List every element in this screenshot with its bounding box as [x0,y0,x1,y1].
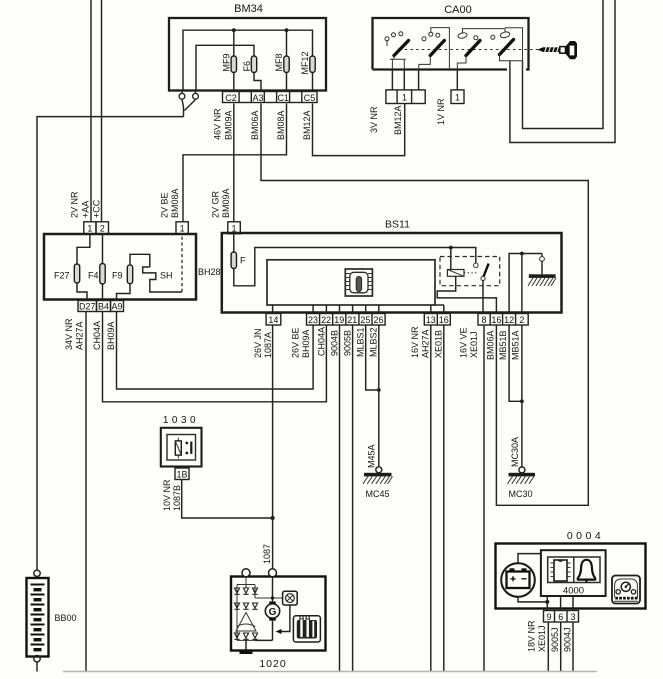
svg-text:13: 13 [426,315,436,325]
svg-text:3V NR: 3V NR [369,106,379,133]
svg-text:21: 21 [347,315,357,325]
wire 1087 to alternator [272,518,274,569]
diode bridge [237,577,283,641]
fuse box (F27 F4 F9 SH) [44,234,196,300]
wire AH27A pin13 down [430,325,432,672]
terminal circles bottom left [182,91,196,94]
wire F9 top to SH [130,254,150,267]
svg-text:MB51A: MB51A [511,330,521,360]
wire sw1 bottom [387,41,406,70]
connector 14 [266,314,281,326]
connector D27 [78,301,97,312]
ground tab [245,640,247,649]
instrument panel 0004 [496,544,646,609]
svg-text:1087A: 1087A [263,332,273,358]
connector 2 (+CC) [96,222,109,234]
svg-text:2V BE: 2V BE [160,192,170,218]
stubs from module to pins [273,305,444,314]
bottom cut line [63,671,597,673]
svg-text:AH27A: AH27A [75,321,85,350]
svg-text:14: 14 [268,315,278,325]
svg-text:MLBS1: MLBS1 [356,327,366,357]
svg-text:C2: C2 [225,93,237,103]
fuse F (BH28) [233,234,235,252]
wire net BM06A (A3 around to BS11 pin16) [261,104,588,506]
svg-text:0004: 0004 [567,530,604,542]
svg-text:G: G [269,607,277,618]
wire MLBS2 to ground [378,325,380,467]
svg-text:BM34: BM34 [234,3,263,15]
connector B4 [97,301,111,312]
svg-text:BM08A: BM08A [276,110,286,140]
svg-text:+CC: +CC [92,199,102,218]
svg-text:MF12: MF12 [300,51,310,74]
svg-text:MF8: MF8 [274,54,284,72]
wire battery feed from BM34 terminals [37,100,196,571]
wires 4000 to pins [547,596,573,611]
wire MF8 stub [286,30,288,91]
connector strip BM34 [223,92,318,103]
wire MLBS1 join [366,325,379,390]
charge lamp terminal [283,591,298,605]
IC symbol [554,560,567,581]
wire internal bus 2 [196,45,254,90]
diagnostic socket 1030 [161,428,202,467]
wire sw2 bottom [419,28,450,70]
svg-text:1B: 1B [176,469,187,479]
wire AH27A down [85,312,87,672]
battery warning light [501,563,535,597]
svg-text:MC30: MC30 [508,489,532,499]
wire internal bus 1 [183,30,313,90]
wire net BM09A (C2 to BS11) [233,104,235,222]
svg-text:12: 12 [504,315,514,325]
svg-text:16: 16 [439,315,449,325]
wire CH04A down/right [103,312,327,402]
svg-text:2: 2 [100,224,105,234]
ground MC45 [376,467,382,473]
gauge symbol [612,576,640,604]
connector 1 (BM09A to BS11) [228,222,241,234]
connector 1V NR [451,90,464,104]
svg-text:SH: SH [160,271,173,281]
svg-text:46V NR: 46V NR [213,108,223,140]
shunt SH [143,267,182,292]
switch blade 1 [394,41,409,56]
svg-text:MB51B: MB51B [498,330,508,360]
svg-text:9005J: 9005J [550,627,560,652]
svg-text:9004J: 9004J [563,627,573,652]
svg-text:D27: D27 [79,302,96,312]
node junction MF9 [232,28,236,32]
svg-text:1: 1 [455,93,460,103]
svg-text:19: 19 [334,315,344,325]
connector strip 23-26 [307,314,386,326]
fuse MF8 [284,56,289,73]
svg-text:MC45: MC45 [365,489,389,499]
svg-text:MC30A: MC30A [510,437,520,467]
rotor G [272,577,274,602]
wire +CC feed [101,0,103,222]
wire MB51B join [509,325,522,401]
wire conn2 through F4 [102,234,104,301]
fuse F9 [127,265,132,284]
switch blade 3 [466,41,480,56]
svg-text:9005B: 9005B [343,330,353,356]
svg-text:F27: F27 [54,271,70,281]
svg-text:2V NR: 2V NR [70,191,80,218]
svg-text:16: 16 [491,315,501,325]
svg-text:26V JN: 26V JN [253,328,263,358]
svg-text:CA00: CA00 [444,4,472,16]
fuse F6 [251,56,256,73]
wire SH to conn BM08A (dashed) [181,234,183,292]
svg-text:XE01J: XE01J [469,331,479,358]
svg-text:BM06A: BM06A [486,330,496,360]
svg-text:1087B: 1087B [172,485,182,511]
wire F to relay coil [234,248,476,286]
wire F6 bottom jog [254,73,261,92]
svg-text:BM09A: BM09A [221,188,231,218]
svg-text:1: 1 [402,93,407,103]
svg-text:6: 6 [558,612,563,622]
connector 9/6/3 [544,611,579,623]
wire F27 to D27 [77,283,87,301]
svg-text:A3: A3 [252,93,263,103]
fuse/relay unit BS11 [222,233,562,313]
wires CA00 to connectors [392,70,457,90]
svg-text:8: 8 [481,315,486,325]
svg-text:+AA: +AA [81,201,91,218]
svg-text:MF9: MF9 [222,54,232,72]
svg-text:9004B: 9004B [330,330,340,356]
node junction MF8 [285,28,289,32]
control unit 4000 [541,550,606,596]
connector 13/16 [424,314,450,326]
svg-text:BM12A: BM12A [393,105,403,135]
svg-text:F: F [240,256,246,266]
wire 1087A pin14 down [272,325,274,518]
wire 9005B down [352,325,354,672]
svg-text:BM08A: BM08A [170,188,180,218]
dashed actuation line [399,49,541,51]
wire F9 to A9 [117,284,131,301]
svg-text:18V NR: 18V NR [527,620,537,652]
fuse F27 [74,264,79,283]
inner module box [267,260,435,305]
wire 1087B [182,480,273,519]
node coil feed [449,246,453,250]
svg-text:F9: F9 [112,271,123,281]
fuse F4 [100,264,105,285]
fuse box BM34 [169,18,326,91]
svg-text:F4: F4 [88,271,99,281]
svg-text:2V GR: 2V GR [211,190,221,218]
wire CA00 inner loop [523,0,604,129]
svg-text:22: 22 [321,315,331,325]
svg-text:1030: 1030 [163,415,199,426]
svg-text:1V NR: 1V NR [436,98,446,125]
switch blade 4 [500,40,514,55]
relay switch blade [481,276,485,280]
wire conn1 to F27 [77,234,90,264]
svg-text:16V NR: 16V NR [410,326,420,358]
svg-text:M45A: M45A [367,444,377,468]
svg-text:XE01B: XE01B [434,330,444,358]
relay coil [447,270,464,277]
central connector symbol [345,269,372,296]
svg-text:AH27A: AH27A [421,329,431,358]
svg-text:XE01J: XE01J [537,625,547,652]
svg-text:26: 26 [373,315,383,325]
ignition switch CA00 [373,18,529,70]
wire lamp to pin 9 [518,597,547,602]
svg-text:9: 9 [546,612,551,622]
wire 9004B down [339,325,341,672]
svg-text:BH09A: BH09A [106,321,116,350]
connector 1B [175,468,189,480]
svg-text:BM06A: BM06A [250,110,260,140]
svg-text:BH09A: BH09A [301,329,311,358]
relay (dashed box) [440,257,500,286]
bell symbol [578,560,595,580]
svg-text:BM09A: BM09A [224,110,234,140]
svg-text:CH04A: CH04A [317,327,327,356]
svg-text:A9: A9 [111,302,122,312]
svg-text:10V NR: 10V NR [162,479,172,511]
wire relay coil to pin 16 [437,276,496,313]
svg-text:F6: F6 [242,61,252,72]
svg-text:16V VE: 16V VE [459,327,469,358]
svg-text:C5: C5 [304,93,316,103]
battery BB00 [34,570,40,576]
fuse MF12 [310,56,315,73]
wire lamp to 4000 [518,554,541,564]
wire XE01B down [443,325,445,672]
wire XE01J pin8 down [483,325,485,672]
wire MF9 stub [233,30,235,91]
svg-text:2: 2 [519,315,524,325]
wire BH09A down/right [117,312,314,390]
svg-text:BB00: BB00 [55,613,77,623]
regulator/brush unit [293,616,320,642]
svg-text:1: 1 [87,224,92,234]
wire relay switch to pin 8 [482,281,484,314]
svg-text:BS11: BS11 [385,219,410,231]
connector strip CA00 [386,90,425,104]
svg-text:23: 23 [308,315,318,325]
svg-text:MLBS2: MLBS2 [369,327,379,357]
svg-text:25: 25 [360,315,370,325]
svg-text:4000: 4000 [563,586,584,597]
node 1087 junction [271,516,275,520]
svg-text:26V BE: 26V BE [291,327,301,358]
wire net BM08A (C1 to SH box) [183,104,287,222]
alternator 1020 [231,577,326,651]
svg-text:1: 1 [180,224,185,234]
svg-text:BH28: BH28 [198,267,221,277]
wire +AA feed [90,0,92,222]
wire MB51A to ground [521,325,523,467]
connector 8/16/12/2 [478,314,528,326]
connector 1 (+AA) [84,222,96,234]
svg-text:34V NR: 34V NR [64,318,74,350]
svg-text:1087: 1087 [262,544,272,564]
regulator triangle [236,613,256,632]
svg-text:C1: C1 [277,93,289,103]
wire sw4 bottom [500,28,523,70]
wires to bottom [548,622,573,672]
relay contact [474,263,479,268]
wire MF12 bottom [312,73,314,92]
ground MC30 [519,467,525,473]
switch blade 2 [430,41,444,56]
key symbol [538,41,578,59]
ground symbol internal [541,254,543,257]
svg-text:1020: 1020 [259,658,286,670]
wire net BM12A (C5 to CA00) [313,104,405,156]
fuse MF9 [231,56,236,73]
connector A9 [111,301,124,312]
wire sw3 bottom [457,29,505,70]
svg-text:3: 3 [570,612,575,622]
svg-text:BM12A: BM12A [302,110,312,140]
wire CA00 outer loop [510,0,615,143]
svg-text:B4: B4 [98,302,109,312]
wire internal ground bus [509,254,542,314]
svg-text:CH04A: CH04A [92,321,102,350]
relay link (dotted) [464,272,478,274]
connector 1 (BM08A) [176,222,188,234]
